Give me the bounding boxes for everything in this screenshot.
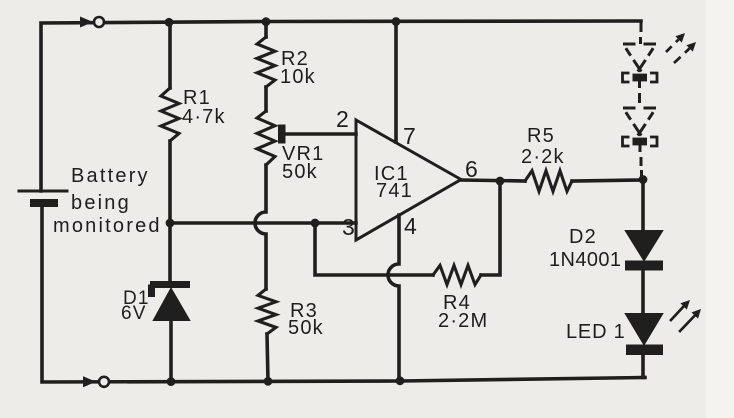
wire output node down to D2: [641, 180, 645, 231]
wire R4 right to output node: [481, 181, 500, 275]
diode D2 triangle: [626, 231, 662, 260]
resistor R1: [161, 88, 179, 141]
LED optional D3 dashed cathode bar: [623, 73, 658, 82]
node junction dot top rail R1: [165, 18, 174, 27]
wire dashed stub from top rail to optional LED: [639, 21, 643, 44]
diode D2 cathode bar: [625, 261, 663, 271]
svg-text:10k: 10k: [280, 66, 316, 88]
svg-text:Battery: Battery: [71, 165, 150, 187]
wire D2 to LED1: [641, 270, 645, 314]
wire monitored node to D1: [168, 223, 172, 281]
svg-text:2·2k: 2·2k: [521, 146, 565, 168]
node top-left connector circle: [94, 17, 104, 27]
wire dashed to output node: [640, 139, 642, 177]
svg-text:LED 1: LED 1: [566, 321, 626, 343]
svg-text:7: 7: [403, 123, 417, 149]
svg-text:monitored: monitored: [53, 215, 162, 237]
node junction dot bottom rail R3: [264, 377, 273, 386]
node junction dot bottom rail pin4: [396, 376, 405, 385]
op-amp U1 IC1 741 triangle: [356, 120, 461, 240]
wire LED1 to bottom rail: [643, 355, 645, 378]
svg-text:50k: 50k: [288, 317, 324, 339]
svg-text:2·2M: 2·2M: [438, 310, 488, 332]
arrow emission arrow lower for LED1: [680, 316, 695, 332]
wire R2 branch upper lead: [264, 22, 268, 37]
arrow dashed emission arrow upper for optional LEDs: [666, 39, 679, 52]
node bottom-left connector arrow: [83, 376, 96, 387]
wire pin 7 to top rail: [394, 21, 398, 142]
diode D1 triangle: [154, 289, 189, 320]
potentiometer VR1 wiper bar: [278, 125, 286, 144]
node junction dot bottom rail D1: [167, 377, 176, 386]
node top-left connector arrow: [80, 17, 93, 28]
svg-text:2: 2: [336, 106, 350, 132]
arrow dashed emission arrow lower for optional LEDs: [674, 48, 690, 63]
svg-text:50k: 50k: [282, 161, 318, 183]
wire feedback tap down from pin3 node: [315, 223, 433, 275]
resistor R2: [257, 37, 275, 87]
wire dashed between optional LEDs: [638, 75, 641, 103]
svg-text:6V: 6V: [121, 303, 147, 324]
node junction dot top rail R2: [262, 17, 271, 26]
LED optional D4 dashed triangle: [623, 108, 656, 136]
resistor R5: [525, 171, 572, 192]
node junction dot monitored: [166, 219, 175, 228]
LED optional D3 dashed triangle: [623, 44, 656, 72]
node junction dot LED column top: [639, 175, 648, 184]
wire R1 bottom to monitored node: [168, 141, 172, 223]
wire VR1 wiper to pin 2: [285, 132, 356, 136]
wire VR1 bottom with hop over pin3 wire: [255, 165, 266, 289]
arrow emission arrow upper for LED1: [671, 306, 684, 320]
battery B1 plate negative: [30, 199, 58, 207]
svg-text:being: being: [71, 192, 131, 214]
svg-text:3: 3: [342, 214, 356, 240]
svg-text:1N4001: 1N4001: [549, 249, 621, 271]
wire pin 4 to bottom rail with hop over feedback wire: [388, 215, 399, 381]
svg-text:4·7k: 4·7k: [182, 106, 226, 128]
wire output pin 6: [461, 180, 525, 181]
node bottom-left connector circle: [99, 377, 109, 387]
resistor R3: [258, 289, 276, 334]
node junction dot output: [496, 177, 505, 186]
LED1 cathode bar: [626, 345, 663, 356]
svg-text:741: 741: [376, 180, 413, 202]
node junction dot top rail pin7: [392, 17, 401, 26]
LED optional D4 dashed cathode bar: [623, 137, 658, 146]
wire bottom rail: [42, 207, 644, 382]
wire D1 anode to bottom rail: [169, 320, 173, 382]
potentiometer VR1 track: [257, 111, 275, 165]
battery B1 plate positive: [19, 190, 67, 193]
svg-text:4: 4: [404, 213, 418, 239]
wire R1 branch upper lead: [168, 22, 172, 88]
node junction dot feedback tap: [311, 219, 320, 228]
LED1 triangle: [626, 314, 662, 344]
diode D1 zener cathode bar: [150, 285, 190, 298]
wire R5 to LED column: [572, 180, 643, 181]
resistor R4: [433, 265, 481, 284]
wire top supply rail: [41, 21, 641, 191]
svg-text:D2: D2: [569, 226, 597, 248]
wire monitored node to pin 3: [170, 221, 356, 225]
wire R2 to VR1: [264, 87, 268, 111]
wire R3 to bottom rail: [267, 334, 268, 381]
svg-text:6: 6: [465, 156, 479, 182]
svg-text:R5: R5: [527, 125, 555, 147]
